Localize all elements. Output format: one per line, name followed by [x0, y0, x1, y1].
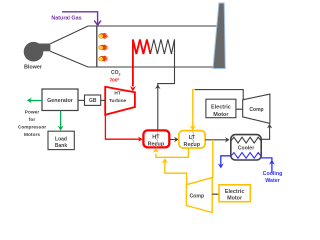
- compressor C1: [243, 94, 270, 123]
- cooling water inlet (blue, arrow up): [261, 158, 275, 173]
- heater zigzag cold section: [150, 39, 174, 54]
- pipe heater to HT turbine (red, arrow down): [130, 39, 136, 91]
- heater zigzag red hot section: [133, 39, 151, 54]
- svg-text:Compressor: Compressor: [18, 125, 46, 131]
- electric motor M2 (yellow): [219, 185, 250, 202]
- HT turbine T1: [105, 87, 135, 115]
- svg-text:HT: HT: [114, 91, 120, 97]
- svg-text:GB: GB: [89, 98, 97, 104]
- flame 3: [98, 56, 109, 62]
- wire generator to load bank (green, arrow down): [58, 111, 64, 131]
- HT recuperator: [143, 130, 169, 147]
- pipe comp outlet to LT recup (yellow, arrow down): [190, 90, 196, 131]
- pipe turbine exhaust to HT recup (red, arrow right): [105, 115, 142, 142]
- svg-text:Recup: Recup: [148, 142, 165, 148]
- shaft recomp to motor: [212, 193, 219, 195]
- svg-text:Comp: Comp: [249, 107, 263, 113]
- load bank LB: [48, 131, 74, 149]
- svg-text:Cooling: Cooling: [263, 171, 283, 177]
- pipe HT recup to LT recup (arrow right): [169, 137, 178, 142]
- cooler HX: [231, 135, 261, 160]
- pipe comp outlet (black top): [195, 90, 243, 100]
- svg-text:for: for: [29, 117, 36, 123]
- label cooling water: [263, 171, 283, 184]
- shaft generator to GB: [78, 99, 85, 101]
- svg-text:700º: 700º: [110, 77, 120, 83]
- svg-text:2: 2: [119, 73, 121, 77]
- svg-text:Recup: Recup: [184, 142, 201, 148]
- svg-text:Motors: Motors: [24, 132, 40, 138]
- svg-text:Turbine: Turbine: [109, 98, 127, 104]
- pipe LT recup to cooler (arrow right): [205, 137, 230, 142]
- stack: [213, 3, 225, 69]
- svg-text:LT: LT: [189, 135, 196, 141]
- pipe LT recup cold-out to HT recup cold-in (yellow, arrow up): [153, 148, 189, 157]
- svg-text:Electric: Electric: [211, 105, 231, 111]
- svg-text:Power: Power: [25, 110, 40, 116]
- svg-text:Load: Load: [55, 136, 67, 142]
- combustor funnel: [50, 26, 217, 67]
- flame 1: [98, 33, 109, 39]
- svg-text:HT: HT: [152, 135, 160, 141]
- wire power out (green, arrow left): [27, 98, 42, 104]
- svg-text:Cooler: Cooler: [238, 145, 254, 151]
- svg-text:Bank: Bank: [55, 143, 67, 149]
- natural gas feed: [51, 12, 101, 25]
- svg-text:Water: Water: [265, 178, 280, 184]
- svg-text:Motor: Motor: [227, 196, 243, 202]
- svg-text:Electric: Electric: [225, 189, 244, 195]
- svg-text:Blower: Blower: [24, 65, 43, 71]
- shaft GB to turbine: [101, 99, 106, 101]
- svg-text:Comp: Comp: [189, 194, 204, 200]
- pipe split to recompressor (yellow): [212, 140, 214, 179]
- svg-text:Natural Gas: Natural Gas: [51, 16, 81, 22]
- shaft motor to comp: [236, 108, 243, 110]
- LT recuperator: [179, 131, 205, 148]
- svg-text:Motor: Motor: [213, 112, 229, 118]
- pipe cooler to comp (arrow up): [261, 124, 273, 140]
- pipe recomp outlet to junction (yellow, arrow up): [162, 158, 187, 184]
- label power for compressor motors: [18, 110, 46, 139]
- svg-text:Generator: Generator: [47, 98, 74, 104]
- generator G1: [42, 89, 78, 111]
- flame 2: [98, 45, 109, 51]
- pipe HT recup to heater (black riser, arrow up): [155, 39, 174, 130]
- svg-text:CO: CO: [111, 70, 119, 76]
- gearbox GB: [85, 95, 101, 105]
- blower B1: [24, 42, 51, 71]
- recompressor C2 (yellow): [186, 178, 212, 213]
- cooling water outlet (blue, arrow down): [218, 156, 231, 169]
- node CO2 label: [110, 70, 121, 83]
- electric motor M1: [206, 99, 236, 118]
